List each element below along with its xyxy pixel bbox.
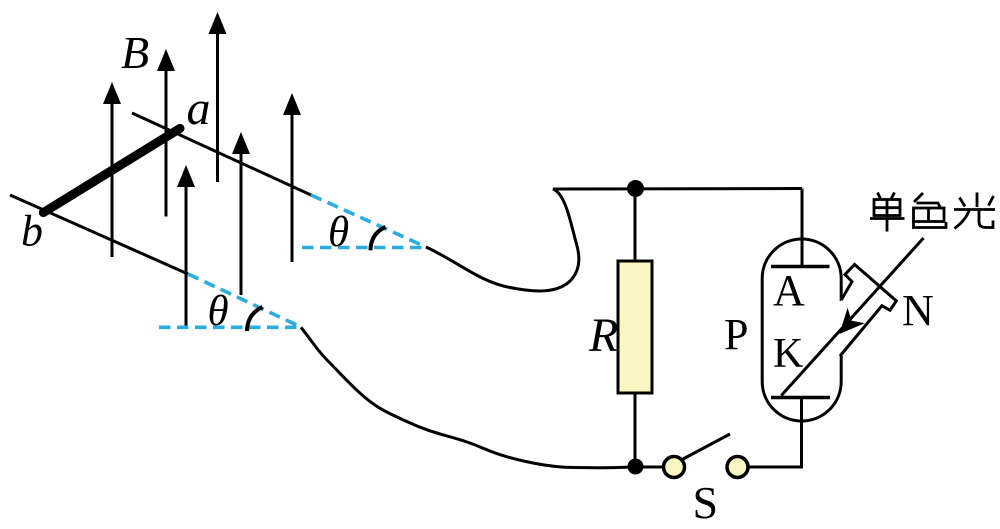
switch terminal 1 xyxy=(664,457,685,478)
node dot bottom xyxy=(628,459,644,475)
top rail xyxy=(132,113,311,195)
label monochromatic light (hanzi se) xyxy=(914,193,947,228)
svg-text:b: b xyxy=(21,207,43,256)
field arrow B1 xyxy=(103,82,121,257)
svg-text:B: B xyxy=(121,27,149,78)
bottom rail xyxy=(10,195,188,274)
svg-text:R: R xyxy=(588,309,618,362)
anode plate A xyxy=(771,265,830,269)
dashed slope extension bottom xyxy=(188,274,301,327)
field arrow B3 xyxy=(209,12,227,182)
svg-text:N: N xyxy=(902,286,934,335)
angle arc top xyxy=(371,227,386,250)
light ray and cathode K line xyxy=(781,238,923,396)
switch lever xyxy=(683,434,730,459)
angle arc bottom xyxy=(247,307,263,331)
wire from top vertex to top node (curvy) xyxy=(426,189,802,291)
wire switch to phototube bottom xyxy=(748,397,802,467)
dashed horizontal bottom xyxy=(159,325,301,329)
svg-text:A: A xyxy=(773,266,805,315)
dashed horizontal top xyxy=(302,246,426,250)
svg-text:θ: θ xyxy=(328,209,349,256)
rod ab xyxy=(43,128,180,212)
node dot top xyxy=(627,180,644,197)
collimator window N (white body) xyxy=(840,265,896,357)
dashed slope extension top xyxy=(311,195,426,247)
field arrow B2 xyxy=(157,49,175,217)
wire node to resistor xyxy=(634,189,637,262)
field arrow B6 xyxy=(177,165,195,329)
wire resistor to bottom node xyxy=(634,393,637,467)
label monochromatic light (hanzi guang) xyxy=(954,193,995,229)
collimator window N (outline) xyxy=(840,265,896,357)
phototube glass envelope xyxy=(762,239,841,421)
switch terminal 2 xyxy=(727,457,748,478)
svg-text:P: P xyxy=(724,310,748,359)
light ray arrowhead xyxy=(839,308,864,334)
wire node to switch xyxy=(635,466,664,469)
svg-text:a: a xyxy=(187,82,211,135)
wire right side down to phototube xyxy=(801,189,804,267)
wire from bottom vertex to bottom node (curvy) xyxy=(301,327,635,467)
svg-text:S: S xyxy=(693,477,719,528)
svg-text:K: K xyxy=(773,331,803,377)
label monochromatic light (hanzi dan) xyxy=(870,193,905,232)
field arrow B5 xyxy=(283,93,301,262)
resistor R xyxy=(618,261,652,393)
svg-text:θ: θ xyxy=(208,288,229,335)
field arrow B4 xyxy=(232,132,250,295)
cathode bottom plate xyxy=(771,396,830,400)
